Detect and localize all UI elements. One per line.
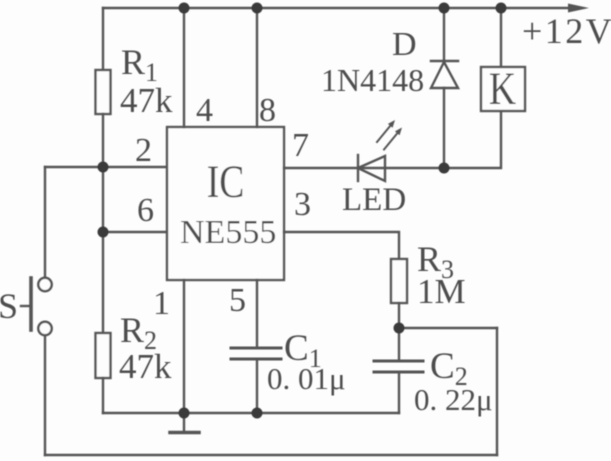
svg-text:1: 1 [153, 285, 170, 322]
wire: pin 8 [256, 8, 258, 127]
svg-text:0. 22μ: 0. 22μ [414, 382, 493, 417]
svg-text:S: S [0, 286, 18, 326]
op-amp/timer IC U1 NE555 box [167, 127, 284, 280]
node: C1 / ground junction [252, 408, 263, 419]
node: diode / LED junction [439, 163, 450, 174]
svg-text:8: 8 [259, 92, 276, 129]
svg-text:2: 2 [135, 132, 152, 169]
svg-text:1M: 1M [417, 272, 466, 311]
wire: pin 2 wire [45, 166, 167, 168]
svg-text:IC: IC [207, 156, 245, 208]
ground [170, 413, 199, 433]
resistor R3 [391, 259, 407, 303]
svg-text:LED: LED [342, 182, 406, 218]
node: pin1 / ground junction [179, 408, 190, 419]
node: pin2 / R1 junction [98, 162, 109, 173]
svg-text:7: 7 [292, 127, 309, 164]
svg-text:47k: 47k [119, 347, 172, 386]
wire: ground bus y=413 [103, 412, 399, 414]
wire: switch bottom branch [44, 334, 46, 455]
wire: bottom return rail [45, 454, 497, 456]
switch S [21, 278, 52, 335]
svg-text:NE555: NE555 [180, 214, 276, 251]
wire: R2 bottom lead to ground bus [102, 378, 104, 413]
wire: R1 bottom down to R2 top [102, 114, 104, 333]
relay K [481, 8, 525, 111]
wire: R3/C2 node to right loop [399, 327, 497, 329]
svg-text:4: 4 [196, 92, 213, 129]
svg-text:47k: 47k [120, 81, 173, 120]
capacitor C2 [374, 328, 423, 413]
svg-text:0. 01μ: 0. 01μ [267, 361, 346, 396]
svg-text:6: 6 [137, 192, 154, 229]
wire: switch top branch [44, 167, 46, 277]
capacitor C1 [231, 348, 281, 413]
+12V arrowhead [568, 4, 589, 13]
wire: right loop vertical [496, 328, 498, 455]
wire: R3 bottom lead [398, 303, 400, 328]
svg-text:K: K [489, 63, 516, 115]
resistor R2 [96, 333, 111, 378]
wire: pin 6 wire [103, 231, 167, 233]
svg-text:D: D [392, 26, 417, 63]
LED [358, 120, 402, 181]
node: rail / diode junction [439, 3, 450, 14]
node: rail / pin4 junction [179, 3, 190, 14]
wire: +12V top supply rail [103, 7, 572, 9]
wire: R1 top lead [102, 8, 104, 70]
svg-text:3: 3 [294, 186, 311, 223]
node: rail / pin8 junction [252, 3, 263, 14]
wire: pin 1 [183, 280, 185, 413]
wire: pin 5 to C1 [256, 280, 258, 348]
svg-text:1N4148: 1N4148 [321, 62, 424, 98]
node: pin6 / R2 junction [98, 227, 109, 238]
svg-text:5: 5 [229, 282, 246, 319]
wire: pin 7 to LED and relay [284, 111, 501, 168]
diode D 1N4148 [431, 8, 458, 168]
node: R3 / C2 junction [394, 323, 405, 334]
wire: pin 4 [183, 8, 185, 127]
resistor R1 [96, 70, 111, 114]
wire: pin 3 to R3 [284, 232, 399, 259]
node: rail / relay junction [496, 3, 507, 14]
svg-text:+12V: +12V [522, 11, 611, 51]
